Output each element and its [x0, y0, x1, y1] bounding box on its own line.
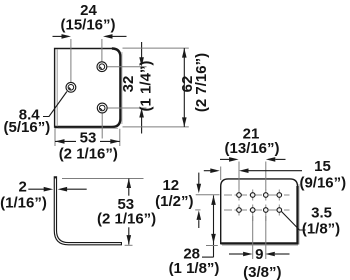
- plate front view outline: [55, 49, 121, 128]
- svg-text:(9/16”): (9/16”): [299, 175, 346, 192]
- row 2 centerline: [224, 209, 290, 211]
- extension col1 vertical: [238, 162, 240, 191]
- row2 extension left: [195, 209, 200, 211]
- dimension 12 upper arrow: [198, 173, 200, 185]
- centerline right bottom hole horizontal: [102, 107, 146, 109]
- dimension 2 line: [28, 188, 44, 190]
- dimension 53 line: [128, 179, 130, 196]
- plate edge shade: [298, 184, 300, 245]
- extension line bottom (53): [125, 244, 133, 246]
- svg-text:12: 12: [162, 177, 179, 194]
- dimension 62 line: [183, 48, 185, 127]
- svg-text:(1 1/8”): (1 1/8”): [169, 260, 220, 277]
- centerline right top hole vertical: [101, 39, 103, 67]
- svg-text:15: 15: [314, 158, 331, 175]
- svg-text:(1 1/4”): (1 1/4”): [138, 61, 155, 112]
- plate thick right+bottom edge: [221, 186, 298, 243]
- L profile body: [55, 178, 120, 244]
- label 3.5 leader: [282, 212, 306, 231]
- plate thick right+bottom edge: [55, 49, 121, 128]
- svg-text:(15/16”): (15/16”): [60, 17, 115, 34]
- hole left: [66, 82, 76, 92]
- plate edge shade: [121, 52, 123, 124]
- dimension 28 line: [213, 195, 215, 257]
- hole column tick marks: [239, 190, 279, 222]
- svg-text:53: 53: [80, 129, 97, 146]
- holes grid 2x4: [237, 193, 282, 213]
- extension col3 vertical: [265, 162, 267, 191]
- row 1 centerline: [224, 194, 290, 196]
- centerline right top hole horizontal: [102, 66, 147, 68]
- svg-text:32: 32: [120, 76, 137, 93]
- svg-text:(1/8”): (1/8”): [302, 220, 340, 237]
- dimension 53 line: [55, 140, 76, 142]
- plate top view outline: [221, 179, 298, 244]
- svg-text:(5/16”): (5/16”): [4, 119, 51, 136]
- dimension 12 lower arrow: [197, 210, 202, 220]
- svg-text:(1/2”): (1/2”): [155, 193, 193, 210]
- extension col2 col3 below (9): [252, 216, 254, 259]
- label 8.4 leader: [43, 92, 67, 117]
- svg-text:(3/8”): (3/8”): [243, 264, 281, 280]
- dimension 32 line: [141, 42, 143, 58]
- row1 extension left: [196, 194, 220, 196]
- bottom extension left: [206, 245, 218, 247]
- dimension 24 line: [53, 35, 63, 37]
- svg-text:(2 1/16”): (2 1/16”): [59, 146, 118, 163]
- svg-text:2: 2: [19, 179, 27, 196]
- svg-text:3.5: 3.5: [311, 204, 332, 221]
- bend line: [56, 49, 58, 126]
- dimension 21 line: [220, 158, 229, 160]
- centerline left hole vertical: [70, 39, 72, 87]
- hole right bottom: [97, 103, 107, 113]
- svg-text:(13/16”): (13/16”): [224, 140, 279, 157]
- dimension 9 line: [229, 253, 243, 255]
- svg-text:(2 7/16”): (2 7/16”): [193, 53, 210, 112]
- svg-text:(1/16”): (1/16”): [0, 195, 47, 212]
- extension lines 53: [54, 129, 56, 147]
- svg-text:9: 9: [255, 246, 263, 263]
- svg-text:(2 1/16”): (2 1/16”): [97, 211, 156, 228]
- extension left edge vertical: [220, 167, 222, 181]
- hole right top: [97, 62, 107, 72]
- extension lines 62: [123, 47, 189, 49]
- extension line top (53): [62, 178, 144, 180]
- leader 28: [202, 256, 214, 258]
- centerline bottom hole vertical: [101, 108, 103, 139]
- dimension 15 line: [204, 170, 211, 172]
